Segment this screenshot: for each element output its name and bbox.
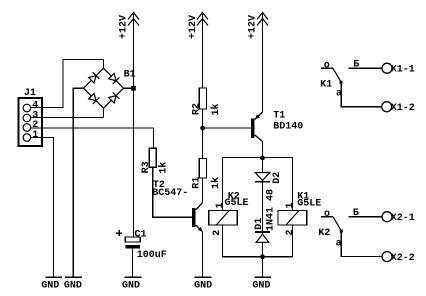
diode branch wire (262, 158, 264, 257)
+12V arrow 3 (248, 13, 269, 40)
svg-text:1k: 1k (210, 177, 222, 189)
ground GND (J1 pin1) (41, 277, 62, 292)
diode B1 upper-left (89, 72, 100, 83)
svg-text:100uF: 100uF (137, 250, 167, 261)
relay K1 G5LE coil (278, 191, 321, 235)
wire K1 coil top (292, 158, 294, 211)
wire R1 to T2 collector (202, 178, 204, 203)
capacitor C1 100uF (116, 230, 167, 262)
svg-text:1: 1 (215, 202, 226, 208)
bridge rectifier B1 (84, 68, 136, 108)
ground GND (relays) (252, 277, 271, 292)
wire +12V rail1 down to C1 (133, 14, 135, 237)
top relay rail (223, 157, 293, 159)
svg-text:+12V: +12V (248, 15, 259, 39)
svg-text:1: 1 (32, 130, 38, 141)
wire +12V rail2 to R2 (202, 14, 204, 88)
svg-text:R1: R1 (192, 177, 203, 189)
svg-text:J1: J1 (24, 88, 36, 99)
bottom relay rail (223, 256, 293, 258)
node R2/R1/T1 (200, 126, 205, 131)
wire J1 pin4 to bridge top (31, 60, 104, 108)
wire J1 pin1 to GND (31, 138, 54, 278)
diode D2 (255, 172, 283, 184)
wire C1 to GND (132, 249, 134, 278)
wire J1 pin2 to R3 top (31, 128, 154, 148)
svg-text:R2: R2 (191, 103, 202, 115)
diode B1 upper-right (109, 73, 120, 84)
wire T1 collector down (262, 142, 264, 158)
svg-text:D2: D2 (272, 172, 283, 184)
resistor R3 1k (141, 148, 170, 174)
svg-text:D1: D1 (254, 218, 265, 230)
svg-text:a: a (336, 88, 342, 99)
wire K2 coil top (222, 158, 224, 211)
wire J1 pin3 to bridge bottom (31, 117, 104, 119)
wire K2 coil bottom (222, 225, 224, 257)
wire bridge top stub (103, 60, 105, 69)
wire bridge left to GND (73, 88, 83, 277)
wire +12V rail3 to T1 emitter (262, 14, 264, 112)
ground GND (bridge) (64, 277, 82, 292)
svg-text:Б: Б (353, 60, 359, 71)
terminal X2-2 (382, 252, 392, 262)
svg-text:GND: GND (41, 281, 59, 292)
wire K1 coil bottom (292, 225, 294, 257)
svg-text:2: 2 (285, 229, 296, 235)
svg-text:K1: K1 (320, 80, 332, 91)
svg-text:GND: GND (64, 281, 82, 292)
relay K2 G5LE coil (209, 191, 249, 235)
diode B1 lower-left (89, 93, 100, 104)
svg-text:X1-1: X1-1 (391, 65, 415, 76)
svg-text:X2-1: X2-1 (391, 213, 415, 224)
svg-text:X2-2: X2-2 (391, 253, 415, 264)
ground GND (T2) (194, 277, 212, 292)
junction bottom rail (260, 254, 265, 259)
svg-text:R3: R3 (141, 161, 152, 173)
svg-text:+12V: +12V (119, 15, 130, 39)
wire bottom rail to GND (262, 257, 264, 277)
svg-text:C1: C1 (135, 230, 147, 241)
terminal X1-2 (382, 102, 392, 112)
transistor T1 BD140 (251, 110, 304, 141)
svg-text:B1: B1 (124, 70, 136, 81)
+12V arrow 2 (188, 13, 208, 40)
resistor R1 1k (192, 159, 222, 190)
diode D1 (254, 218, 270, 243)
svg-text:G5LE: G5LE (225, 198, 249, 209)
wire T2 emitter to GND (202, 232, 204, 277)
svg-text:BD140: BD140 (273, 121, 303, 132)
svg-text:o: o (324, 60, 330, 71)
junction top rail (260, 156, 265, 161)
wire R2 to node (202, 109, 204, 159)
junction bridge+12V (131, 86, 136, 91)
terminal X1-1 (382, 63, 392, 73)
svg-text:1k: 1k (158, 162, 170, 174)
connector J1 (18, 88, 41, 146)
svg-text:GND: GND (252, 281, 270, 292)
wire bridge bottom stub (103, 108, 105, 117)
wire R3 to T2 base (153, 167, 193, 217)
svg-text:BC547-: BC547- (152, 188, 188, 199)
svg-text:GND: GND (122, 281, 140, 292)
ground GND (C1) (122, 277, 142, 292)
wire bridge right to +12V line (124, 87, 134, 89)
svg-text:GND: GND (194, 281, 212, 292)
transistor T2 BC547 (152, 180, 202, 232)
terminal X2-1 (382, 212, 392, 222)
svg-text:G5LE: G5LE (297, 198, 321, 209)
svg-text:X1-2: X1-2 (391, 103, 415, 114)
diode B1 lower-right (109, 92, 120, 103)
svg-text:1N41 48: 1N41 48 (266, 189, 277, 231)
switch contact K2 (318, 208, 414, 264)
svg-text:1: 1 (285, 202, 296, 208)
svg-text:+12V: +12V (188, 15, 199, 39)
+12V arrow 1 (119, 13, 140, 40)
resistor R2 1k (191, 88, 222, 116)
svg-text:2: 2 (212, 230, 223, 236)
svg-text:o: o (324, 209, 330, 220)
svg-text:1k: 1k (210, 103, 222, 115)
wire node to T1 base (203, 127, 251, 129)
svg-text:a: a (336, 238, 342, 249)
svg-text:T1: T1 (273, 110, 285, 121)
switch contact K1 (320, 60, 415, 115)
svg-text:Б: Б (353, 208, 359, 219)
svg-text:K2: K2 (318, 228, 330, 239)
